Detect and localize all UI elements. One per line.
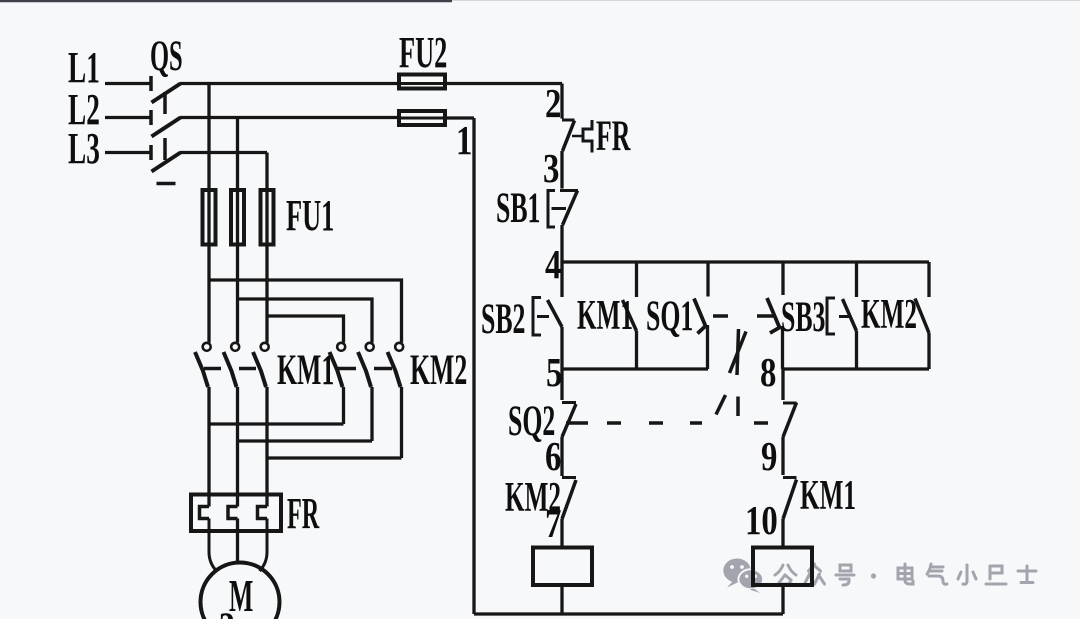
- svg-text:8: 8: [760, 351, 776, 396]
- svg-text:1: 1: [456, 119, 472, 164]
- svg-text:KM1: KM1: [800, 473, 856, 519]
- svg-text:9: 9: [761, 435, 777, 480]
- svg-text:2: 2: [545, 82, 561, 127]
- svg-text:L3: L3: [68, 123, 100, 172]
- svg-text:FR: FR: [596, 111, 631, 160]
- svg-text:5: 5: [546, 351, 562, 396]
- svg-text:FU2: FU2: [399, 28, 447, 77]
- svg-text:SB1: SB1: [496, 183, 540, 232]
- svg-text:KM2: KM2: [861, 292, 917, 338]
- svg-text:KM1: KM1: [577, 293, 633, 339]
- svg-text:KM2: KM2: [410, 345, 467, 394]
- svg-text:4: 4: [545, 243, 561, 288]
- svg-text:FU1: FU1: [286, 191, 334, 240]
- svg-text:6: 6: [545, 435, 561, 480]
- svg-text:FR: FR: [287, 488, 319, 538]
- svg-text:7: 7: [545, 502, 561, 547]
- svg-text:KM1: KM1: [277, 345, 334, 394]
- svg-text:3: 3: [219, 605, 235, 619]
- svg-text:SB3: SB3: [781, 292, 825, 341]
- svg-text:3: 3: [543, 147, 559, 192]
- svg-text:QS: QS: [150, 32, 183, 80]
- svg-text:10: 10: [745, 499, 778, 544]
- svg-text:SQ1: SQ1: [646, 291, 693, 340]
- svg-text:SB2: SB2: [481, 294, 525, 343]
